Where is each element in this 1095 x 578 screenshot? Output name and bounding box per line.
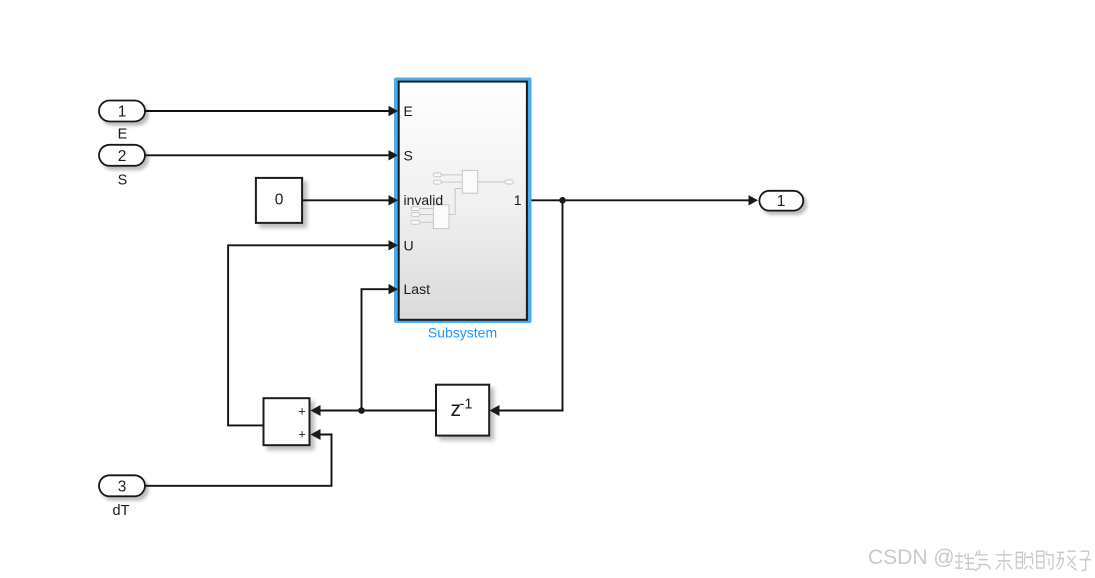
wire subsystem out to outport 1 xyxy=(532,199,750,201)
subsystem port label E xyxy=(404,103,413,119)
svg-text:1: 1 xyxy=(118,104,127,121)
svg-text:dT: dT xyxy=(113,503,130,519)
sum block (inputs on right) xyxy=(264,398,310,445)
wire sum output to subsystem U xyxy=(228,245,389,425)
arrowhead into subsystem invalid xyxy=(389,195,399,205)
junction dot on output wire xyxy=(559,197,566,204)
label Subsystem (block name) xyxy=(428,325,497,341)
arrowhead into outport 1 xyxy=(749,195,759,205)
svg-text:E: E xyxy=(404,103,413,119)
arrowhead into sum input 2 (left-pointing) xyxy=(311,429,321,440)
subsystem port label U xyxy=(404,237,414,253)
svg-text:S: S xyxy=(118,173,128,189)
svg-text:0: 0 xyxy=(275,192,284,209)
subsystem port label S xyxy=(404,147,413,163)
svg-text:CSDN @: CSDN @ xyxy=(868,546,955,569)
label S (inport 2 name) xyxy=(118,173,128,189)
arrowhead into sum input 1 (left-pointing) xyxy=(311,405,321,416)
arrowhead into subsystem U xyxy=(389,240,399,250)
svg-text:E: E xyxy=(118,127,128,143)
svg-text:2: 2 xyxy=(118,148,127,165)
wire junction to subsystem Last xyxy=(362,289,390,410)
arrowhead into subsystem E xyxy=(389,106,399,116)
svg-text:Last: Last xyxy=(404,281,431,297)
subsystem content preview icon xyxy=(411,170,513,228)
svg-text:U: U xyxy=(404,237,414,253)
svg-text:3: 3 xyxy=(118,478,127,495)
svg-text:+: + xyxy=(298,403,306,418)
svg-text:1: 1 xyxy=(514,192,522,208)
arrowhead into subsystem S xyxy=(389,150,399,160)
subsystem output port label 1 xyxy=(514,192,522,208)
wire branch down to unit delay input xyxy=(500,200,563,410)
arrowhead into subsystem Last xyxy=(389,284,399,294)
wire constant0 to subsystem invalid xyxy=(302,199,389,201)
inport block 2 xyxy=(99,145,145,166)
inport block 3 xyxy=(99,475,145,496)
svg-text:1: 1 xyxy=(777,193,786,210)
inport block 1 xyxy=(99,101,145,122)
arrowhead into unit delay (left-pointing) xyxy=(490,405,500,416)
constant block 0 xyxy=(256,178,302,223)
watermark CSDN @稚气未脱的孩子 xyxy=(868,546,1091,570)
subsystem port label invalid xyxy=(404,192,444,208)
wire inport3 dT to sum input 2 xyxy=(145,435,332,486)
svg-text:S: S xyxy=(404,147,413,163)
svg-text:-1: -1 xyxy=(460,397,473,413)
outport block 1 xyxy=(759,191,803,211)
svg-text:+: + xyxy=(298,426,306,441)
subsystem port label Last xyxy=(404,281,431,297)
unit delay block Z^-1 xyxy=(436,385,489,436)
label dT (inport 3 name) xyxy=(113,503,130,519)
svg-text:Subsystem: Subsystem xyxy=(428,325,497,341)
wire inport1 to subsystem E xyxy=(145,110,389,112)
subsystem block (selected, blue highlight) xyxy=(394,78,532,324)
label E (inport 1 name) xyxy=(118,127,128,143)
wire inport2 to subsystem S xyxy=(145,154,389,156)
junction dot on delay-to-sum wire xyxy=(358,407,365,414)
wire unit delay output to sum input 1 xyxy=(321,410,437,412)
svg-text:invalid: invalid xyxy=(404,192,444,208)
